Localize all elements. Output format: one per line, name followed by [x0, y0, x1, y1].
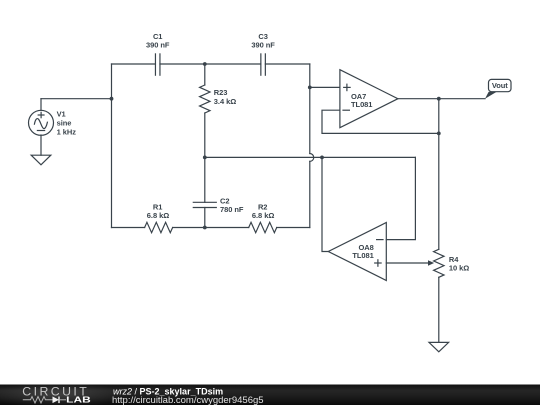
node junction OA7 + tap [308, 86, 312, 90]
wire bottom rail right segment [277, 227, 310, 229]
wire R23 top lead [204, 64, 206, 85]
svg-text:10 kΩ: 10 kΩ [449, 263, 469, 272]
node junction C2 / bottom rail [203, 226, 207, 230]
svg-text:780 nF: 780 nF [220, 205, 244, 214]
wire R23 bottom lead [204, 113, 206, 157]
svg-text:6.8 kΩ: 6.8 kΩ [252, 211, 274, 220]
node junction feedback / R4 branch [437, 132, 441, 136]
node junction mid rail / OA8 output branch [320, 155, 324, 159]
svg-text:390 nF: 390 nF [146, 41, 170, 50]
wire mid rail [205, 156, 416, 158]
svg-text:Vout: Vout [492, 81, 508, 90]
svg-text:390 nF: 390 nF [251, 41, 275, 50]
ground under R4 [429, 342, 449, 351]
value label C1 [146, 32, 170, 50]
svg-text:V1: V1 [57, 110, 66, 119]
wire C2 bottom lead [204, 208, 206, 228]
value label R4 [449, 255, 469, 273]
svg-text:3.4 kΩ: 3.4 kΩ [214, 97, 236, 106]
resistor R2 [249, 222, 277, 232]
capacitor C3 [261, 54, 266, 75]
value label R23 [214, 88, 236, 106]
svg-text:http://circuitlab.com/cwygder9: http://circuitlab.com/cwygder9456g5 [112, 395, 264, 405]
wire OA8 output branch [322, 157, 328, 251]
svg-text:TL081: TL081 [351, 100, 372, 109]
value label OA7 [351, 92, 372, 109]
node junction V1/left branch [110, 97, 114, 101]
svg-text:6.8 kΩ: 6.8 kΩ [147, 211, 169, 220]
wire R4 bottom lead [438, 277, 440, 342]
wire OA7 feedback loop [322, 110, 439, 133]
capacitor C1 [155, 54, 160, 75]
wire OA7 + input [310, 86, 340, 88]
potentiometer R4 [434, 249, 444, 277]
node junction mid rail / R23 / C2 [203, 155, 207, 159]
net flag Vout [485, 79, 511, 98]
wire node A to C3 [205, 63, 261, 65]
wire bottom rail left segment [112, 227, 145, 229]
wire R4 top lead from output branch [438, 99, 440, 250]
capacitor C2 [193, 202, 216, 207]
wire C1 to node A [160, 63, 205, 65]
wire C3 to right corner [265, 63, 309, 65]
wire mid rail corner down to OA8 - input [386, 157, 415, 239]
node junction top rail / R23 [203, 62, 207, 66]
wire left vertical branch [111, 64, 113, 228]
resistor R23 [200, 85, 210, 113]
resistor R1 [145, 222, 173, 232]
svg-text:TL081: TL081 [352, 251, 373, 260]
wire top rail segment V1-corner to C1 [112, 63, 156, 65]
value label C2 [220, 197, 244, 214]
value label R1 [147, 202, 169, 220]
wire right vertical branch upper (with hop over mid rail) [309, 64, 311, 154]
svg-text:LAB: LAB [66, 394, 91, 404]
footer bar [0, 382, 540, 405]
wire bottom rail mid segment [173, 227, 249, 229]
wire C2 top lead [204, 157, 206, 202]
ground under V1 [31, 155, 51, 165]
wiper arrow on R4 [428, 260, 434, 266]
value label V1 [57, 110, 77, 137]
value label C3 [251, 32, 275, 50]
svg-text:sine: sine [57, 119, 72, 128]
wire OA8 + to R4 wiper [386, 262, 428, 264]
voltage source V1 [29, 99, 54, 156]
footer title text [112, 386, 264, 405]
logo CIRCUIT LAB [22, 384, 90, 404]
value label OA8 [352, 243, 373, 260]
wire right vertical branch lower [309, 161, 311, 227]
op-amp OA7 [340, 70, 398, 128]
value label R2 [252, 202, 274, 220]
svg-text:1 kHz: 1 kHz [57, 128, 77, 137]
wire OA7 output [398, 98, 485, 100]
node junction output / R4 branch [437, 97, 441, 101]
op-amp OA8 [328, 223, 386, 281]
wire V1 to left branch [41, 98, 112, 100]
wire hop over mid rail [310, 154, 314, 162]
